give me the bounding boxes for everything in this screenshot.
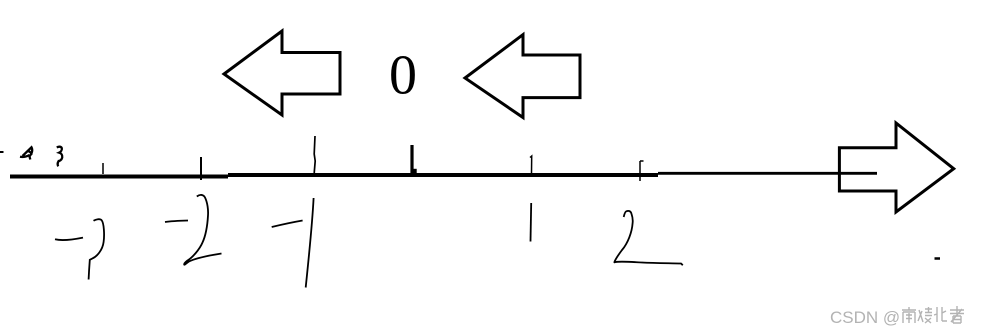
svg-text:CSDN @: CSDN @	[830, 308, 900, 327]
svg-text:0: 0	[389, 44, 417, 106]
